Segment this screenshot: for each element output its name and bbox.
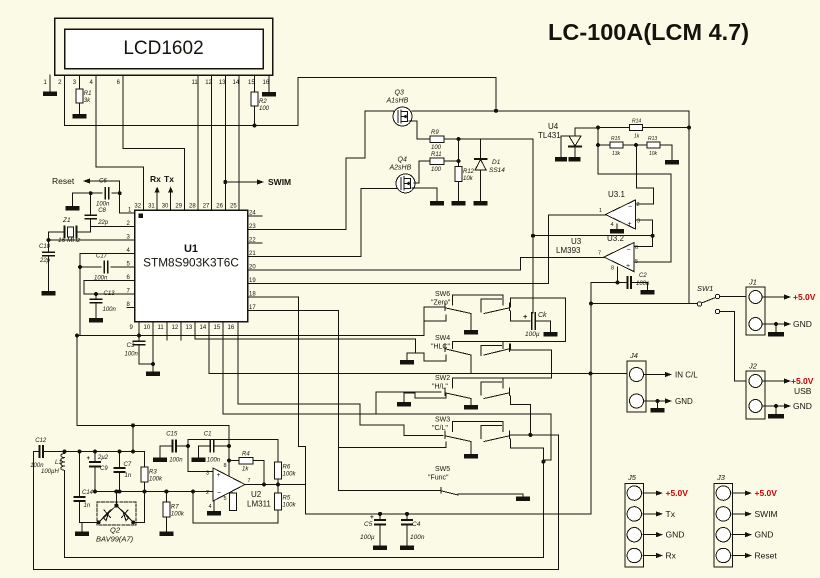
wire R3 top [144,452,146,468]
svg-text:30: 30 [162,204,169,210]
svg-text:+5.0V: +5.0V [791,376,814,386]
wire SW3 left NC [339,442,447,447]
svg-text:1k: 1k [634,134,640,140]
wire C1 left [199,445,211,447]
capacitor C10 [39,244,54,264]
wire U1 pin17 to SW5 [248,311,441,491]
svg-text:BAV99(A7): BAV99(A7) [96,535,134,544]
capacitor C4 [402,514,425,541]
resistor R14 [630,119,643,140]
wire C10 top [48,232,50,252]
ground U4 anode [569,157,581,162]
switch SW6 contacts [424,295,510,321]
svg-text:5: 5 [224,496,227,502]
svg-text:SS14: SS14 [489,167,505,174]
wire Reset to U1 pin1 [120,181,135,213]
svg-text:R11: R11 [431,152,442,158]
capacitor C14 [75,452,94,510]
wire to SW1 common [591,303,697,305]
op-amp U2 LM311 [206,463,271,510]
ground C5 [373,546,387,551]
svg-text:J4: J4 [629,351,638,360]
inductor L1 [41,454,65,476]
svg-text:R6: R6 [283,465,291,471]
ground U2 pin4 [207,511,221,516]
svg-text:29: 29 [175,204,182,210]
ground SW2 left [397,402,411,407]
wire R13 to ground [660,145,672,160]
switch SW3 CL [432,417,450,433]
wire SW2 ground step [404,393,446,402]
U1 top pin stubs [143,203,184,210]
switch SW4 contacts [424,341,566,361]
wire U1 pin4 [80,253,135,255]
wire bias line [77,424,229,426]
svg-text:+: + [626,263,630,270]
svg-text:R2: R2 [259,99,267,105]
capacitor C12 [30,438,47,469]
ground SW5 [516,497,530,502]
switch SW2 HL [432,375,450,391]
ground SW6 [464,330,478,335]
svg-text:C2: C2 [639,273,647,279]
ground R12 [452,201,466,206]
wire C3 bottom [139,345,153,364]
svg-text:+5.0V: +5.0V [793,292,816,302]
ground R7 [159,532,173,537]
svg-text:Ck: Ck [538,312,547,319]
wire C17 right to U1 pin5 [111,266,135,268]
svg-text:26: 26 [216,204,223,210]
wire rail to Ck plate [532,236,534,313]
svg-text:GND: GND [755,530,774,540]
ground U3.1 pin4 [610,229,624,234]
ground R13 [665,160,679,165]
ground D1 [474,201,488,206]
svg-text:LM393: LM393 [556,246,581,255]
node C1 junction [227,444,231,448]
wire LCD pin11 to U1 pin28 [197,75,199,210]
ground near C6 [65,206,79,211]
node VCC Q3 junction [494,109,498,113]
wire rail to U3 inputs [533,235,653,237]
wire vcc row [188,438,278,440]
net IN C/L [644,371,699,380]
wire SW4 common [470,355,472,374]
wire R5 feedback [193,492,278,524]
net GND J1 [762,319,812,329]
node SW1 feed junction [589,302,593,306]
wire VCC rail [65,77,496,125]
wire Q3 to R9 [409,121,430,139]
resistor R1 [76,89,92,104]
svg-text:16: 16 [228,325,235,331]
wire C2 to ground [631,283,648,290]
svg-text:Z1: Z1 [62,217,71,224]
svg-text:2µ2: 2µ2 [97,455,109,461]
ground U4 ref [555,157,567,162]
capacitor C17 [94,254,108,282]
wire U2 output [245,484,306,486]
ground pin10 [146,364,160,376]
wire Reset arrow [83,178,120,183]
svg-text:100µH: 100µH [41,469,59,475]
node pin9 junction [137,334,141,338]
node U3 input junction [651,234,655,238]
svg-text:C5: C5 [364,521,373,528]
svg-text:R15: R15 [611,136,620,142]
LCD pin numbers [44,80,270,86]
node R7 junction [164,490,168,494]
resistor R7 [163,502,185,518]
wire R6 top [277,439,279,462]
svg-text:LCD1602: LCD1602 [123,38,203,59]
ground C10 [42,291,56,296]
wire SW6 right pole [511,298,566,341]
wire Q3 top line [412,110,689,112]
op-amp U3.1 [599,190,640,229]
switch SW1 [697,284,720,314]
capacitor Ck [523,312,547,338]
net +5.0V J3 [732,488,777,498]
wire divider mid to U3.1 minus [635,145,653,204]
svg-text:C1: C1 [204,432,212,438]
svg-text:11: 11 [192,80,199,86]
svg-text:1k: 1k [242,466,249,472]
wire C6 right [112,192,120,194]
net SWIM arrow [225,177,291,187]
svg-text:C7: C7 [124,462,132,468]
svg-text:C8: C8 [98,208,106,214]
node C6 right junction [118,191,122,195]
wire left column [76,336,78,426]
wire divider column [597,128,599,146]
svg-text:−: − [217,490,221,497]
svg-text:C13: C13 [104,291,116,297]
wire R2 to VCC rail [254,106,256,126]
svg-text:C17: C17 [96,254,108,260]
wire Z1 right to U1 pin2 [77,227,135,233]
svg-text:R7: R7 [171,505,179,511]
wire U1 pin11 stub [166,322,168,341]
wire C12 left [34,451,40,453]
IC U3 LM393 label [571,237,582,246]
svg-text:Reset: Reset [52,176,75,186]
svg-text:U1: U1 [184,243,198,255]
wire C17 left [80,266,101,268]
svg-text:+: + [628,221,632,228]
net Reset J3 [732,551,777,561]
svg-text:13: 13 [186,325,193,331]
svg-text:J5: J5 [627,473,637,482]
wire C13 bottom [95,303,97,318]
wire R11 right [444,160,459,162]
diode pair Q2 BAV99 [96,502,136,544]
wire input node row [43,451,145,453]
connector J4 [627,351,646,412]
node bias R3 junction [131,423,135,427]
node measure line junction [589,372,593,376]
ground C2 [641,290,655,295]
wire R14 right [643,127,689,129]
capacitor C5 [360,514,385,541]
net +5.0V USB J2 [762,376,814,396]
wire U3.2 pin6 [634,236,653,247]
ground C1 [192,446,206,462]
svg-text:100n: 100n [96,202,110,208]
svg-text:U4: U4 [548,122,559,131]
wire Rx arrow U1 pin31 [155,187,160,211]
node pin3 crystal junction [47,238,51,242]
wire LCD pin12 to U1 pin27 [211,75,213,210]
node C6 left junction [89,191,93,195]
connector J1 [746,278,765,336]
svg-text:27: 27 [203,204,210,210]
wire LCD pin3 [78,75,80,89]
node feedback junction [191,490,195,494]
node C2 junction [616,281,620,285]
wire SW4 right pole [511,344,552,378]
wire LCD pin1 [49,75,51,92]
svg-text:4: 4 [611,222,614,228]
ground Q4 [430,201,444,206]
svg-text:+: + [217,472,221,479]
svg-text:Q4: Q4 [398,156,407,163]
svg-text:Tx: Tx [164,174,174,184]
wire SW6 to Ck [511,311,531,321]
wire U2 pin2 line [95,491,213,493]
svg-text:A1sHB: A1sHB [386,98,409,105]
wire C5 to ground [379,525,381,546]
svg-text:C4: C4 [412,521,421,528]
wire R15 right [623,144,647,146]
wire R1 to ground [78,103,80,114]
svg-text:Q3: Q3 [395,90,404,97]
svg-text:+5.0V: +5.0V [666,488,689,498]
node R9 junction [457,137,461,141]
svg-text:C3: C3 [127,343,135,349]
wire U1 pin16 to SW3 [238,322,443,436]
wire R15 left [598,144,610,146]
svg-text:−: − [627,247,631,254]
capacitor C7 [115,452,132,480]
ground J4 [651,401,665,413]
svg-text:J1: J1 [748,278,757,287]
svg-text:Rx: Rx [150,174,161,184]
wire U1 pin21 to Q4 gate [248,188,397,256]
svg-text:GND: GND [793,401,812,411]
wire C1 right [214,445,230,447]
wire SW1 to J2 [720,312,747,382]
svg-text:100k: 100k [149,477,163,483]
svg-text:10k: 10k [649,151,658,157]
wire U1 pin9 [138,322,140,336]
node C14 junction [78,450,82,454]
svg-text:10k: 10k [463,176,474,182]
wire LCD pin6 to U1 pin29 [123,75,184,210]
svg-text:25: 25 [230,204,237,210]
U1 bottom pin numbers [130,325,235,331]
node pin10 C3 junction [151,362,155,366]
resistor R15 [610,136,623,157]
svg-text:R3: R3 [149,470,157,476]
wire C13 top [95,294,97,299]
wire divider top rail [598,127,629,129]
svg-text:13k: 13k [612,151,621,157]
svg-text:100k: 100k [283,472,297,478]
ground LCD pin1 [43,92,57,97]
svg-text:Reset: Reset [755,551,778,561]
wire R4 left [229,460,239,462]
wire U3.1 pin3 [635,220,652,236]
wire U1 pin20 to U3.2 out [248,258,605,270]
svg-text:1: 1 [599,208,602,214]
capacitor C8 [85,208,109,226]
capacitor C6 [96,179,110,208]
wire SW3 right NC to bottom rail [65,439,544,557]
wire C4 to ground [406,525,408,546]
node R15 left [596,143,600,147]
svg-text:"Func": "Func" [428,475,449,482]
wire SW2 right NC to SW3 pole [511,396,531,435]
svg-text:C14: C14 [82,490,94,496]
wire U1 pin22 stub [248,242,263,244]
wire SW3 common to ground [470,442,472,455]
svg-text:"C/L": "C/L" [432,425,448,432]
wire U1 pin14 measure line [209,322,627,374]
svg-text:"H/L": "H/L" [432,384,448,391]
wire node to D1 [459,138,481,140]
ground SW3 [464,454,478,459]
wire C6 to ground [72,193,90,206]
node R3 junction [131,450,135,454]
wire R9 right [444,138,459,140]
connector J2 [746,362,765,420]
svg-text:100n: 100n [169,458,183,464]
svg-text:R9: R9 [431,130,439,136]
node J4 gnd junction [656,399,660,403]
svg-text:31: 31 [148,204,155,210]
svg-text:SW2: SW2 [435,375,450,382]
ground Q2 node [75,522,89,536]
svg-text:7: 7 [248,478,251,484]
wire LCD pin4 to U1 pin32 [96,75,143,210]
net Reset [52,176,75,186]
crystal Z1 [58,217,81,244]
wire LCD pin16 [268,75,270,92]
wire R9 R11 R12 node [458,139,460,167]
node R4 junction [227,459,231,463]
wire C8 top [90,193,92,215]
wire LCD pin2 to VCC rail [64,75,66,126]
net +5.0V J5 [643,488,688,498]
ground J2 [768,406,784,419]
node C9 pin2 junction [93,490,97,494]
svg-text:GND: GND [675,397,693,406]
wire U1 pin10 [152,322,154,365]
svg-text:U2: U2 [251,490,262,499]
wire U1 pin15 to SW2 [223,322,551,462]
svg-text:C6: C6 [99,179,107,185]
node output R6 junction [276,483,280,487]
wire LCD pin13 to U1 pin26 [224,75,226,210]
svg-text:USB: USB [794,386,812,396]
wire U1 pin3 [49,239,135,241]
svg-text:"Zero": "Zero" [431,300,451,307]
ground LCD pin16 [262,92,276,97]
svg-text:100k: 100k [171,512,185,518]
svg-text:R14: R14 [632,119,641,125]
wire C14 bottom [80,501,99,522]
connector J3 [714,473,733,567]
svg-text:SW1: SW1 [697,284,713,293]
node R4 out junction [262,483,266,487]
node R14 left [596,126,600,130]
node C7 pin2 junction [118,490,122,494]
switch SW2 contacts [445,378,552,399]
svg-text:100: 100 [431,167,442,173]
wire U1 pin6 [84,280,135,282]
resistor R5 [275,493,297,510]
wire Q4 to R11 [414,161,430,183]
svg-text:8: 8 [611,266,614,272]
wire U1 pin8 stub [127,307,135,309]
wire pin6 corner [83,281,85,295]
svg-text:+5.0V: +5.0V [755,488,778,498]
svg-text:SWIM: SWIM [268,177,291,187]
wire U1 pin12 stub [180,322,182,341]
node R11 junction [457,159,461,163]
wire comparator input rail [481,139,533,236]
wire U1 pin18 to C5 rail [248,297,592,514]
net +5.0V J1 [762,292,816,302]
wire pin4 column [79,254,81,336]
wire R3 bottom [144,482,146,492]
wire U3.1 ground [616,224,618,229]
wire LCD pin14 to U1 pin25 [238,75,240,210]
svg-text:C10: C10 [39,244,51,250]
resistor R11 [430,152,444,173]
net GND J5 [643,530,684,540]
capacitor C2 [628,273,651,288]
svg-text:32: 32 [134,204,141,210]
svg-text:2: 2 [637,202,640,208]
svg-text:U3.1: U3.1 [608,190,625,199]
LCD module LCD1602 [55,18,273,75]
svg-text:R13: R13 [648,136,657,142]
wire U1 pin7 [84,293,135,295]
wire VCC drop to SW1 [688,111,690,304]
svg-text:U3: U3 [571,237,582,246]
wire C10 bottom [48,256,50,291]
svg-text:R12: R12 [463,169,475,175]
wire R7 bottom [165,517,167,532]
svg-text:3: 3 [206,471,209,477]
node R15 R13 mid [634,143,638,147]
svg-text:1n: 1n [84,503,91,509]
wire Q2 right up [133,492,144,523]
wire U1 pin19 to U3.1 out [248,215,606,284]
wire L1 bottom [64,471,66,558]
svg-text:10: 10 [144,325,151,331]
svg-text:100n: 100n [410,534,425,541]
resistor R4 [239,451,253,472]
IC U3 LM393 sublabel [556,246,581,255]
connector J5 [625,473,644,567]
wire zero net [77,335,424,337]
op-amp U3.2 [598,234,638,272]
svg-text:IN C/L: IN C/L [675,371,698,380]
